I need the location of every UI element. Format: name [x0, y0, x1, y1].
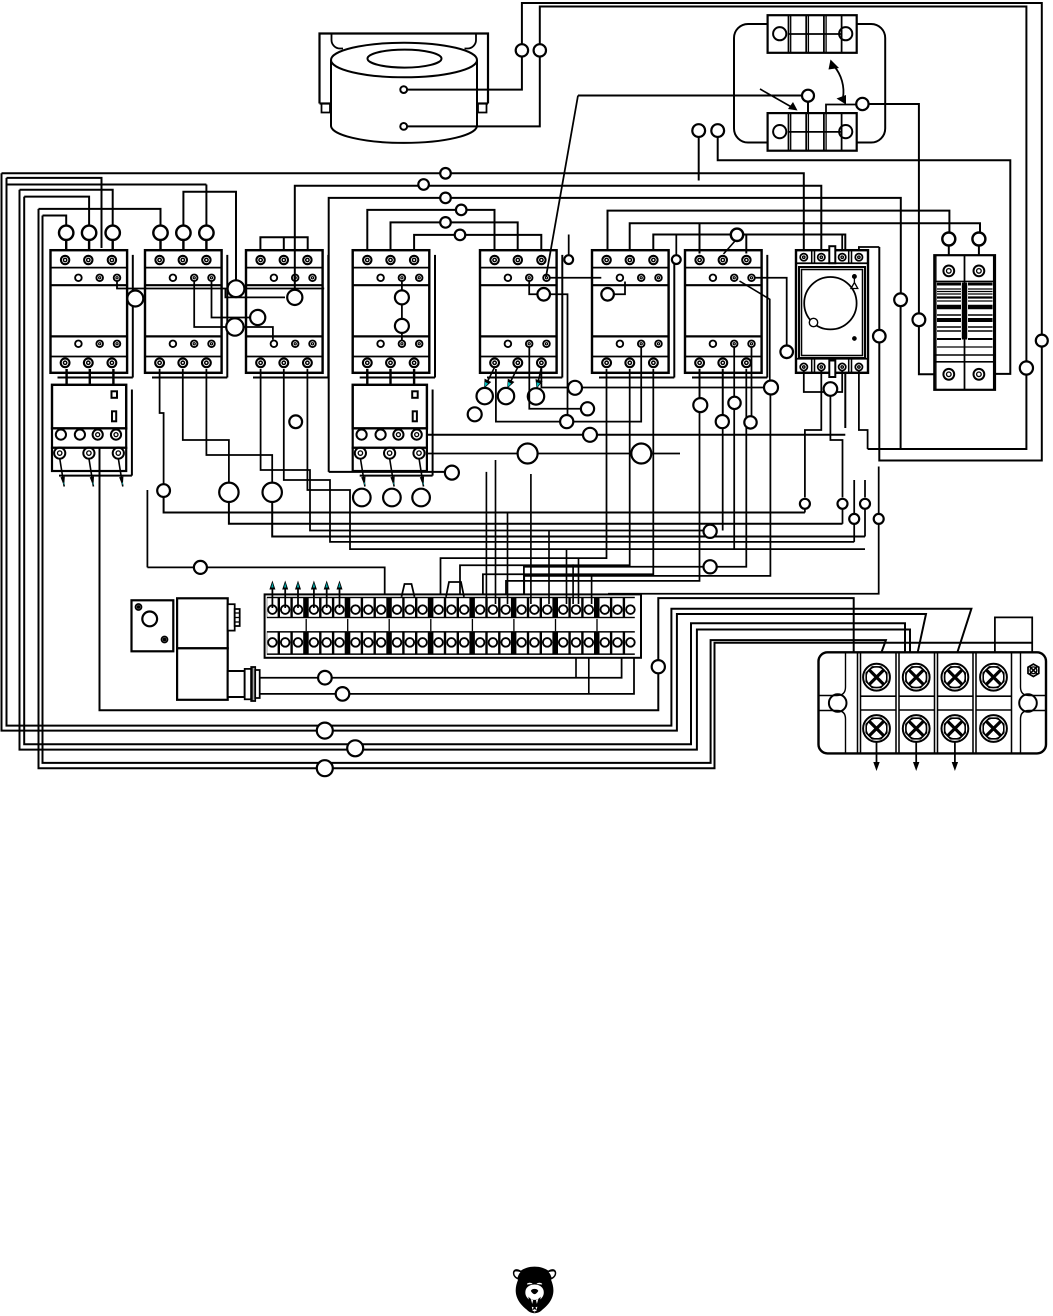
- node: [631, 444, 651, 464]
- terminal 6: [334, 598, 344, 617]
- node: [873, 330, 886, 343]
- terminal 21: [542, 598, 552, 617]
- wire: [260, 655, 622, 678]
- arrow: [284, 587, 286, 609]
- bus wire L6: [329, 198, 901, 472]
- terminal 13b: [433, 633, 443, 654]
- arrow: [313, 587, 315, 609]
- wire: [722, 369, 724, 531]
- terminal 26b: [612, 633, 622, 654]
- wire: [745, 235, 747, 254]
- wire: [146, 490, 148, 567]
- wire: [390, 369, 392, 378]
- node: [440, 168, 451, 179]
- motor lead node: [353, 489, 371, 507]
- arrow: [297, 587, 299, 609]
- node: [802, 90, 814, 102]
- motor lead node: [498, 388, 514, 404]
- wire: [724, 241, 736, 254]
- node: [764, 381, 778, 395]
- bus wire B3b: [20, 190, 911, 750]
- terminal 3b: [293, 633, 303, 654]
- node: [704, 560, 717, 573]
- wire: [294, 250, 296, 291]
- terminal 20b: [529, 633, 539, 654]
- wire: [183, 369, 229, 483]
- contactor K3: [246, 250, 328, 377]
- wire: [869, 104, 919, 314]
- node: [744, 416, 756, 428]
- motor lead node: [477, 388, 493, 404]
- plug connector lower: [768, 113, 857, 151]
- terminal 27: [625, 598, 635, 617]
- terminal 24: [584, 598, 594, 617]
- node: [692, 124, 705, 137]
- wire: [550, 277, 601, 279]
- node: [455, 230, 466, 241]
- wire: [89, 458, 94, 486]
- node: [800, 499, 810, 509]
- node: [59, 226, 73, 240]
- node: [226, 318, 243, 335]
- wire: [614, 282, 625, 295]
- wire: [919, 326, 941, 374]
- wire: [111, 240, 113, 254]
- wire: [89, 369, 91, 385]
- wire: [407, 7, 1026, 362]
- wire: [548, 531, 550, 605]
- wire: [460, 369, 630, 604]
- separator: [388, 619, 390, 631]
- wire: [995, 617, 1032, 663]
- node: [652, 660, 665, 673]
- wire: [675, 235, 677, 256]
- terminal 2: [280, 598, 290, 617]
- terminal 1b: [267, 633, 277, 654]
- bus wire L1: [2, 173, 804, 253]
- bus wire M0: [427, 434, 845, 436]
- node: [780, 346, 793, 359]
- wire: [609, 524, 879, 604]
- overload relay F1: [52, 385, 132, 476]
- terminal 16b: [475, 633, 485, 654]
- wire: [826, 105, 856, 114]
- node: [336, 687, 350, 701]
- wire: [112, 369, 114, 385]
- terminal 18b: [501, 633, 511, 654]
- rotation arrow: [834, 66, 843, 98]
- motor lead wires: [484, 367, 543, 389]
- wire: [366, 369, 368, 378]
- bus wire L12b: [653, 235, 845, 429]
- terminal 14: [446, 598, 456, 617]
- motor lead node: [412, 489, 430, 507]
- terminal 21b: [542, 633, 552, 654]
- node: [440, 193, 451, 204]
- transformer bracket: [320, 34, 489, 113]
- wire: [722, 369, 724, 415]
- wire: [389, 369, 391, 385]
- wire: [658, 598, 853, 660]
- wire: [272, 502, 865, 537]
- node: [289, 415, 302, 428]
- node: [347, 740, 363, 756]
- terminal 2b: [280, 633, 290, 654]
- wire: [760, 89, 795, 109]
- wire: [485, 472, 487, 604]
- terminal 9b: [376, 633, 386, 654]
- node: [972, 233, 985, 246]
- terminal 20: [529, 598, 539, 617]
- wire: [117, 281, 324, 289]
- bus wire B1: [100, 448, 659, 710]
- node: [157, 484, 170, 497]
- wire: [407, 3, 1042, 335]
- node: [219, 483, 238, 502]
- wire: [182, 240, 184, 254]
- arrow: [954, 742, 956, 765]
- node: [263, 483, 282, 502]
- transformer T1: [331, 43, 477, 143]
- arrow: [271, 587, 273, 609]
- wire: [572, 564, 574, 604]
- bus wire B2a: [7, 178, 972, 726]
- bus wire B3a: [24, 197, 905, 745]
- wire: [699, 223, 701, 253]
- node: [568, 381, 582, 395]
- wire: [859, 371, 868, 449]
- terminal 7: [350, 598, 360, 617]
- wire: [260, 655, 634, 694]
- motor lead node: [528, 388, 544, 404]
- node: [199, 226, 213, 240]
- node: [711, 124, 724, 137]
- motor protective switch Q1: [796, 246, 868, 377]
- hex screw: [1028, 664, 1039, 676]
- wire: [194, 281, 273, 340]
- wire: [804, 371, 824, 392]
- wire: [283, 237, 285, 253]
- node: [894, 293, 907, 306]
- node: [824, 382, 838, 396]
- contactor K7: [685, 250, 767, 377]
- terminal 24b: [584, 633, 594, 654]
- terminal 19: [516, 598, 526, 617]
- wire: [159, 240, 161, 254]
- separator: [347, 619, 349, 631]
- wire: [366, 369, 368, 385]
- terminal 5b: [322, 633, 332, 654]
- wire: [710, 369, 746, 567]
- bus wire L5: [24, 197, 89, 226]
- wire: [578, 95, 808, 97]
- wire: [546, 96, 578, 278]
- wire: [804, 509, 806, 513]
- terminal 13: [433, 598, 443, 617]
- wire: [740, 281, 770, 381]
- screw terminal: [942, 715, 969, 742]
- wire: [859, 247, 879, 254]
- wire: [147, 567, 384, 604]
- terminal 26: [612, 598, 622, 617]
- wire: [805, 371, 821, 498]
- node: [601, 288, 614, 301]
- contactor K5: [480, 250, 562, 377]
- wire: [578, 558, 580, 604]
- node: [1036, 335, 1048, 347]
- wire: [529, 347, 581, 409]
- wire: [507, 513, 509, 605]
- wire: [483, 369, 653, 604]
- wire: [879, 247, 1042, 461]
- terminal 27b: [625, 633, 635, 654]
- terminal 19b: [516, 633, 526, 654]
- terminal 9: [376, 598, 386, 617]
- terminal 3: [293, 598, 303, 617]
- node: [445, 466, 459, 480]
- wire: [413, 369, 415, 378]
- motor lead node: [383, 489, 401, 507]
- wire: [205, 185, 207, 226]
- wire: [530, 474, 532, 604]
- screw terminal: [903, 715, 930, 742]
- node: [849, 514, 859, 524]
- contactor K1: [51, 250, 133, 377]
- solenoid valve Y1: [132, 598, 260, 701]
- wire: [261, 369, 710, 531]
- bear logo: [513, 1267, 556, 1314]
- terminal 11: [405, 598, 415, 617]
- wire: [842, 509, 844, 524]
- wire: [329, 471, 446, 473]
- wire: [948, 246, 950, 259]
- separator: [596, 619, 598, 631]
- wire: [841, 235, 843, 254]
- contactor K4: [353, 250, 435, 377]
- bus wire L2b: [7, 178, 102, 248]
- wire: [212, 281, 251, 318]
- bus wire L10: [43, 216, 67, 227]
- separator: [430, 619, 432, 631]
- wire: [853, 480, 855, 514]
- contactor K6: [592, 250, 674, 377]
- wire: [807, 102, 809, 113]
- wire: [541, 367, 764, 387]
- wire: [441, 369, 607, 604]
- separator: [513, 619, 515, 631]
- screw terminal: [942, 664, 969, 691]
- bus wire L2c: [295, 186, 822, 291]
- wire: [699, 369, 701, 399]
- wire: [60, 458, 64, 486]
- terminal 6b: [334, 633, 344, 654]
- wire: [65, 369, 67, 385]
- node: [516, 44, 528, 56]
- wire: [591, 577, 593, 605]
- node: [82, 226, 96, 240]
- node: [838, 499, 848, 509]
- bus wire L12: [414, 235, 541, 254]
- terminal 22: [558, 598, 568, 617]
- wire: [698, 137, 700, 181]
- arrow: [876, 742, 878, 765]
- terminal 23b: [571, 633, 581, 654]
- terminal 4: [309, 598, 319, 617]
- terminal 15: [459, 598, 469, 617]
- wire: [225, 289, 285, 298]
- node: [395, 290, 409, 304]
- node: [395, 319, 409, 333]
- terminal 5: [322, 598, 332, 617]
- wire: [164, 497, 805, 513]
- node: [583, 428, 597, 442]
- node: [153, 226, 167, 240]
- terminal 22b: [558, 633, 568, 654]
- screw terminal: [903, 664, 930, 691]
- node: [942, 233, 955, 246]
- node: [693, 398, 707, 412]
- node: [318, 671, 332, 685]
- terminal 25: [600, 598, 610, 617]
- terminal strip X1: [265, 594, 641, 657]
- terminal 7b: [350, 633, 360, 654]
- wire: [88, 240, 90, 254]
- node: [228, 280, 245, 297]
- wire: [390, 458, 395, 486]
- wire: [733, 409, 735, 549]
- node: [127, 291, 143, 307]
- node: [194, 561, 207, 574]
- separator: [305, 619, 307, 631]
- bus wire L2: [7, 184, 207, 186]
- wire: [205, 240, 207, 254]
- node: [537, 288, 550, 301]
- node: [317, 723, 333, 739]
- node: [518, 444, 538, 464]
- jumper wire: [260, 237, 307, 253]
- bus wire B4a: [43, 216, 886, 763]
- wire: [495, 460, 497, 604]
- wire: [568, 235, 570, 256]
- terminal 10: [392, 598, 402, 617]
- wire: [65, 240, 67, 254]
- node: [1020, 361, 1033, 374]
- terminal 23: [571, 598, 581, 617]
- terminal 1: [267, 598, 277, 617]
- wire: [118, 458, 123, 486]
- jumper: [402, 584, 415, 597]
- node: [106, 226, 120, 240]
- arrow: [326, 587, 328, 609]
- node: [560, 415, 573, 428]
- bus wire L4: [183, 192, 236, 282]
- wire: [566, 549, 568, 604]
- wire: [284, 369, 854, 542]
- plug rotation loop: [734, 24, 885, 143]
- terminal 12b: [417, 633, 427, 654]
- node: [672, 255, 681, 264]
- arrow: [915, 742, 917, 765]
- wire: [496, 348, 641, 422]
- wire: [830, 396, 842, 498]
- wire: [864, 480, 866, 497]
- wire: [733, 347, 735, 396]
- wire: [524, 567, 704, 604]
- node: [287, 290, 302, 305]
- wire: [755, 278, 787, 346]
- terminal 17: [488, 598, 498, 617]
- jumper: [446, 582, 464, 597]
- terminal 10b: [392, 633, 402, 654]
- wire: [978, 246, 980, 259]
- node: [564, 255, 573, 264]
- wire: [868, 375, 1027, 449]
- separator: [471, 619, 473, 631]
- terminal 14b: [446, 633, 456, 654]
- node: [581, 402, 594, 415]
- wire: [307, 369, 865, 549]
- arrow: [339, 587, 341, 609]
- terminal 8b: [363, 633, 373, 654]
- terminal 17b: [488, 633, 498, 654]
- terminal 25b: [600, 633, 610, 654]
- bus wire L9b: [608, 211, 950, 254]
- bus wire B4b: [39, 209, 1033, 768]
- wire: [588, 650, 590, 694]
- bus wire B2b: [2, 173, 927, 730]
- node: [874, 514, 884, 524]
- fuse holder F3: [934, 255, 995, 390]
- node: [716, 415, 729, 428]
- screw terminal: [863, 664, 890, 691]
- wire: [360, 458, 365, 486]
- bus wire L8: [39, 209, 161, 226]
- node: [728, 397, 740, 409]
- wire: [575, 650, 577, 678]
- terminal 12: [417, 598, 427, 617]
- separator: [555, 619, 557, 631]
- node: [704, 525, 717, 538]
- wire: [206, 369, 272, 483]
- terminal 4b: [309, 633, 319, 654]
- terminal block X2: [819, 652, 1047, 753]
- wire: [506, 369, 700, 604]
- overload relay F2: [353, 385, 433, 476]
- wire: [401, 282, 403, 341]
- wire: [837, 371, 842, 392]
- node: [468, 407, 482, 421]
- node: [250, 310, 265, 325]
- terminal 16: [475, 598, 485, 617]
- bus wire L3: [20, 190, 113, 226]
- node: [856, 98, 868, 110]
- wire: [524, 395, 770, 605]
- terminal 8: [363, 598, 373, 617]
- terminal 11b: [405, 633, 415, 654]
- node: [456, 205, 467, 216]
- bus wire L11b: [630, 223, 980, 253]
- wire: [529, 282, 537, 295]
- node: [731, 229, 743, 241]
- node: [534, 44, 546, 56]
- bus wire M1: [427, 453, 680, 455]
- node: [418, 179, 429, 190]
- node: [440, 217, 451, 228]
- wire: [413, 369, 415, 385]
- terminal 15b: [459, 633, 469, 654]
- wire: [900, 306, 902, 449]
- wire: [229, 502, 843, 524]
